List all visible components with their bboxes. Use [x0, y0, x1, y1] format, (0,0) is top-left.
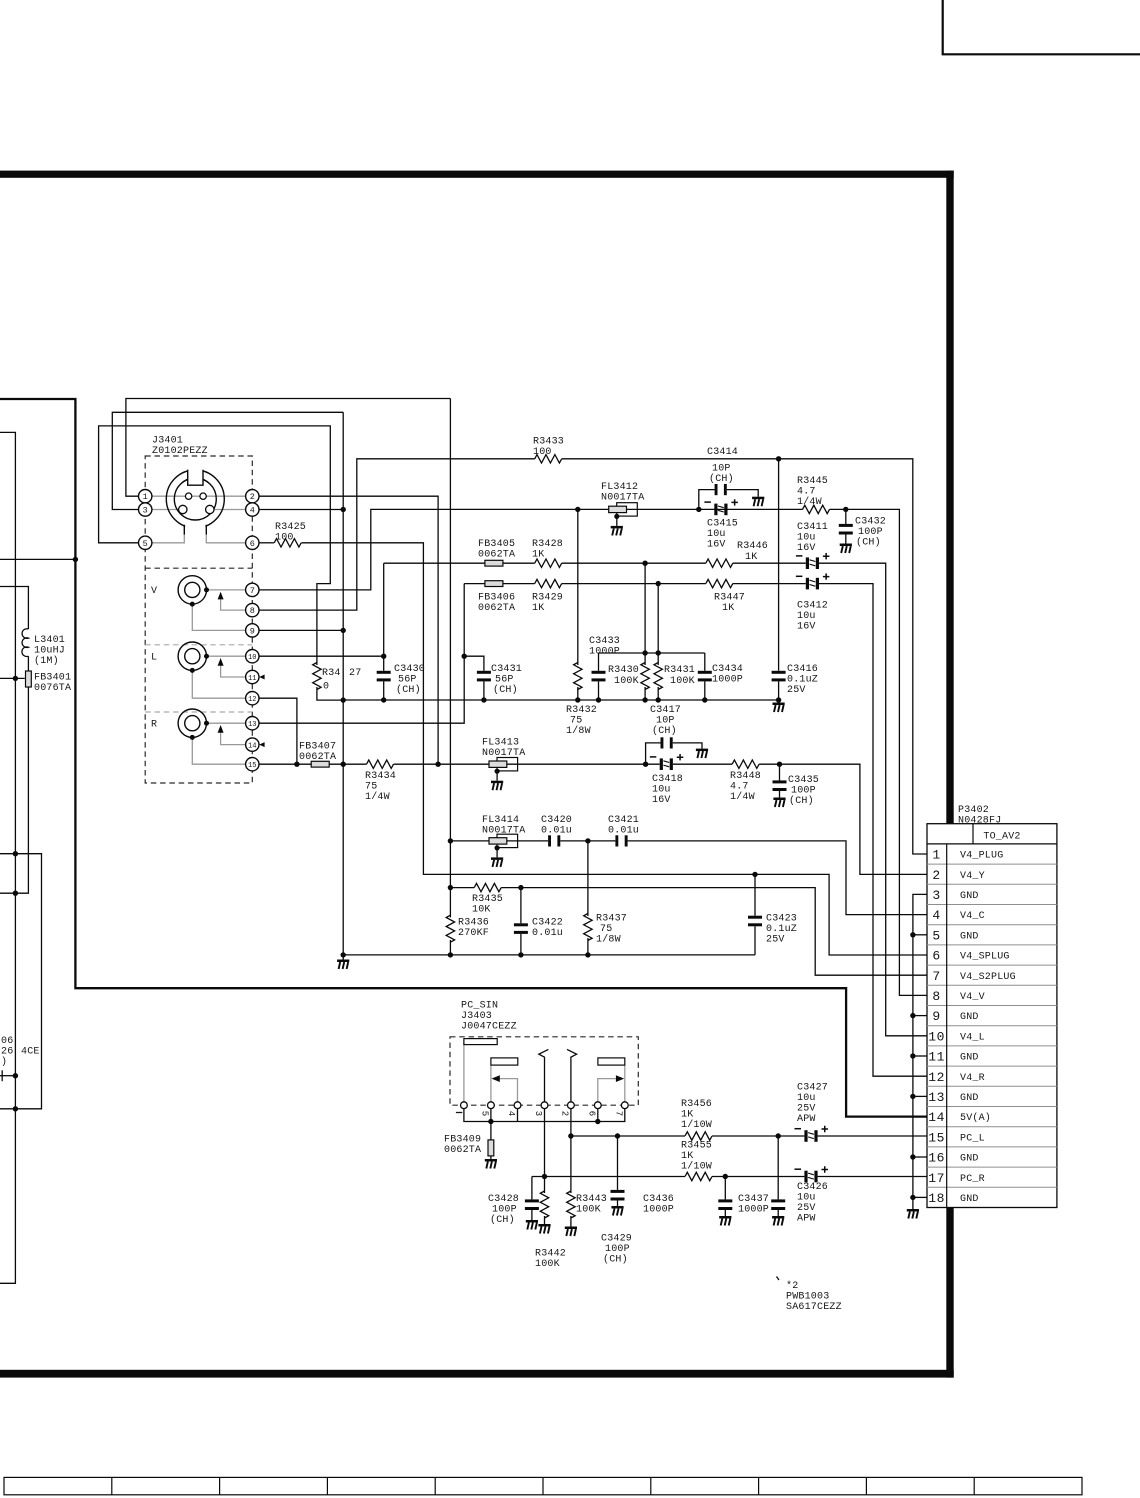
svg-text:FB3405: FB3405	[478, 539, 515, 550]
svg-text:6: 6	[932, 949, 940, 964]
svg-text:FL3413: FL3413	[482, 738, 519, 749]
svg-text:16V: 16V	[707, 540, 726, 551]
node junction V1/678	[13, 676, 18, 681]
wire S1 to R3435	[450, 887, 474, 889]
wire J3401 internal pin1-pin2 gray	[152, 495, 246, 497]
svg-text:17: 17	[928, 1171, 945, 1186]
svg-text:R3430: R3430	[608, 665, 639, 676]
wire stub left edge y1076	[0, 1075, 15, 1077]
resistor R3434	[367, 760, 394, 768]
svg-text:56P: 56P	[495, 675, 514, 686]
svg-text:1K: 1K	[745, 552, 757, 563]
node junction V1/1076	[13, 1073, 18, 1078]
wire R3445 to P3402 pin8 V4_V	[830, 509, 927, 995]
wire pin10 J3401 to audio-L vertical	[259, 655, 384, 657]
svg-text:PC_L: PC_L	[960, 1133, 985, 1144]
svg-text:(1M): (1M)	[34, 655, 59, 667]
wire P3402 pin9 GND stub	[913, 1015, 927, 1017]
wire pin6 J3401 to R3425	[259, 542, 274, 544]
svg-text:0.01u: 0.01u	[608, 826, 639, 837]
node junction C3435 tap	[777, 762, 782, 767]
pin 13 P3402 GND	[928, 1090, 978, 1105]
wire S1 below R3436 to ground rail	[449, 940, 451, 955]
capacitor C3432 to ground	[845, 509, 847, 524]
node junction C3420/C3421	[585, 838, 590, 843]
node junction C3414 tap	[696, 507, 701, 512]
wire C3420 to C3421	[560, 840, 615, 842]
svg-text:R3432: R3432	[566, 705, 597, 716]
J3403 internal switch arm pin6	[598, 1079, 616, 1102]
resistor R3448	[732, 760, 759, 768]
wire R3434 to FL3413	[394, 763, 490, 765]
node junction FB3409/bus	[488, 1119, 493, 1124]
pin 16 P3402 GND	[928, 1151, 978, 1166]
svg-text:GND: GND	[960, 1093, 979, 1104]
svg-text:2: 2	[932, 868, 940, 883]
svg-text:6: 6	[587, 1111, 597, 1116]
J3403 internal contact top bar	[463, 1041, 465, 1102]
capacitor C3433 with top link	[599, 652, 705, 654]
pin 18 P3402 GND	[928, 1191, 978, 1206]
resistor R3425	[274, 539, 301, 547]
svg-text:100K: 100K	[614, 676, 639, 687]
svg-text:APW: APW	[797, 1114, 816, 1125]
resistor R3446	[706, 559, 733, 567]
svg-text:(CH): (CH)	[603, 1254, 628, 1266]
pin 15 P3402 PC_L	[928, 1130, 985, 1145]
resistor R3437	[584, 914, 592, 941]
ferrite bead FB3405	[485, 560, 503, 566]
resistor R3427 value 0	[313, 663, 321, 690]
svg-text:R3443: R3443	[576, 1194, 607, 1205]
svg-text:10u: 10u	[797, 1093, 816, 1104]
ferrite bead FB3401	[26, 671, 32, 687]
wire P3402 pin5 GND stub	[913, 934, 927, 936]
svg-text:100: 100	[533, 447, 552, 458]
svg-text:100P: 100P	[605, 1244, 630, 1255]
ferrite bead FB3407	[311, 761, 329, 767]
resistor R3429	[535, 579, 562, 587]
svg-text:R3428: R3428	[532, 539, 563, 550]
svg-text:12: 12	[928, 1070, 945, 1085]
wire J3401 internal pin5 gray	[152, 535, 185, 543]
svg-text:C3417: C3417	[650, 705, 681, 716]
J3403 internal contact pin7 bar	[624, 1065, 626, 1102]
svg-text:C3433: C3433	[589, 636, 620, 647]
pin 8 P3402 V4_V	[932, 989, 984, 1004]
wire J3403 pin3 down to PC_R	[544, 1109, 546, 1177]
wire pin7 J3401 up to video line	[259, 509, 609, 590]
wire PC_L line from J3403 pin2 to P3402 pin15	[571, 1109, 685, 1136]
wire FB3407 to R3434	[329, 763, 366, 765]
node junction pin4/gndbus	[341, 507, 346, 512]
svg-text:*2: *2	[786, 1280, 798, 1292]
wire long vertical S1 down to R3436	[449, 399, 451, 918]
pin 4 P3402 V4_C	[932, 908, 984, 923]
svg-text:1000P: 1000P	[643, 1205, 674, 1216]
svg-text:PC_R: PC_R	[960, 1174, 985, 1185]
svg-text:3: 3	[533, 1111, 543, 1116]
electrolytic capacitor C3415	[704, 499, 738, 515]
pin 9 P3402 GND	[932, 1009, 978, 1024]
svg-text:0076TA: 0076TA	[34, 683, 71, 694]
node junction C3436 tap	[723, 1174, 728, 1179]
wire ground rail2 y955	[343, 954, 755, 956]
node junction C3422 tap	[518, 885, 523, 890]
svg-text:15: 15	[928, 1130, 945, 1145]
svg-text:FL3412: FL3412	[601, 482, 638, 493]
pin 12 P3402 V4_R	[928, 1070, 985, 1085]
svg-text:16: 16	[928, 1151, 945, 1166]
svg-text:R3442: R3442	[535, 1249, 566, 1260]
node junction C3422/rail2	[518, 952, 523, 957]
svg-text:1K: 1K	[722, 603, 734, 614]
svg-text:1/4W: 1/4W	[365, 791, 390, 803]
wire R3455 to C3426	[712, 1176, 804, 1178]
wire R3425 via x423 to V4_SPLUG line and P3402 pin6	[301, 543, 926, 955]
wire S1 to FL3414	[450, 840, 489, 842]
svg-text:100K: 100K	[535, 1259, 560, 1270]
svg-text:0.1uZ: 0.1uZ	[766, 924, 797, 935]
wire stub left edge to 5V line	[0, 558, 75, 560]
svg-text:25V: 25V	[797, 1203, 816, 1214]
node junction R3432 tap	[575, 507, 580, 512]
resistor R3430	[644, 563, 646, 665]
svg-text:7: 7	[614, 1111, 624, 1116]
svg-text:J3401: J3401	[152, 436, 183, 447]
resistor R3447	[706, 579, 733, 587]
node junction R3430/rail	[642, 697, 647, 702]
wire pin12 J3401 down to chroma/shield line	[259, 698, 297, 764]
pin 1 P3402 V4_PLUG	[932, 848, 1003, 863]
svg-text:(CH): (CH)	[652, 725, 677, 737]
resistor R3432 video terminator	[577, 509, 579, 665]
node junction C3416/rail	[776, 697, 781, 702]
svg-text:R3437: R3437	[596, 914, 627, 925]
RCA jack V J3401	[178, 576, 246, 631]
pin 6 P3402 V4_SPLUG	[932, 949, 1009, 964]
svg-text:R3448: R3448	[730, 771, 761, 782]
pin 3 P3402 GND	[932, 888, 978, 903]
pin 7 P3402 V4_S2PLUG	[932, 969, 1015, 984]
ground at rail right end	[778, 700, 780, 703]
electrolytic capacitor C3411	[796, 553, 830, 569]
connector J3403 pin circles	[461, 1102, 629, 1109]
svg-text:C3411: C3411	[797, 522, 828, 533]
wire pin1 J3401 via top bus to long vertical S1	[126, 399, 451, 497]
wire FB3406 to R3429	[503, 583, 535, 585]
pin 14 P3402 5V(A)	[928, 1110, 991, 1125]
svg-text:FB3407: FB3407	[299, 742, 336, 753]
svg-text:C3435: C3435	[788, 775, 819, 786]
ferrite bead FB3409	[490, 1122, 492, 1140]
wire C3420 junction down to R3437	[587, 841, 589, 916]
wire FL3412 to R3445	[627, 508, 803, 510]
svg-text:C3423: C3423	[766, 914, 797, 925]
wire J3401 internal pin4 gray	[214, 509, 246, 511]
svg-text:10u: 10u	[797, 611, 816, 622]
resistor R3435	[474, 883, 501, 891]
node junction 5V stub	[73, 557, 78, 562]
svg-text:V4_PLUG: V4_PLUG	[960, 851, 1003, 862]
svg-text:4CE: 4CE	[21, 1047, 40, 1058]
svg-text:C3428: C3428	[488, 1194, 519, 1205]
wire L3401 to FB3401	[27, 656, 29, 671]
capacitor C3414 bypass	[699, 490, 715, 510]
wire J3401 internal pin3 gray	[152, 509, 179, 511]
svg-text:L3401: L3401	[34, 635, 65, 646]
svg-text:0.1uZ: 0.1uZ	[787, 675, 818, 686]
node junction rail2 left end	[341, 952, 346, 957]
wire pin9 J3401 to ground bus	[259, 629, 344, 631]
node junction R3431 tap	[656, 581, 661, 586]
svg-text:10u: 10u	[797, 533, 816, 544]
wire P3402 pin11 GND stub	[913, 1055, 927, 1057]
svg-text:10u: 10u	[707, 529, 726, 540]
svg-text:10: 10	[928, 1029, 945, 1044]
node junction C3429 tap	[615, 1133, 620, 1138]
node junction FL3414 tap on S1	[448, 838, 453, 843]
svg-text:100: 100	[275, 533, 294, 544]
svg-text:1: 1	[932, 848, 940, 863]
svg-text:9: 9	[932, 1009, 940, 1024]
capacitor C3420	[548, 835, 560, 846]
svg-text:GND: GND	[960, 891, 979, 902]
svg-text:R3446: R3446	[737, 541, 768, 552]
node junction pin6 bus	[595, 1119, 600, 1124]
svg-text:C3418: C3418	[652, 774, 683, 785]
svg-text:PC_SIN: PC_SIN	[461, 1001, 498, 1012]
wire FB3401 down to edge wire y893	[0, 687, 28, 893]
svg-text:V4_S2PLUG: V4_S2PLUG	[960, 972, 1016, 983]
svg-text:N0017TA: N0017TA	[482, 826, 525, 837]
node junction C3431/rail	[481, 697, 486, 702]
svg-text:1/10W: 1/10W	[681, 1119, 712, 1131]
wire pin2 J3401 down to chroma line	[259, 496, 438, 764]
svg-text:10u: 10u	[652, 785, 671, 796]
svg-text:10K: 10K	[472, 905, 491, 916]
svg-text:4: 4	[506, 1111, 516, 1116]
svg-text:V4_Y: V4_Y	[960, 871, 985, 882]
wire ground rail y700	[343, 699, 778, 701]
wire pin4 J3401 to ground bus	[259, 509, 344, 511]
wire P3402 pin18 GND stub	[913, 1196, 927, 1198]
svg-text:C3431: C3431	[491, 664, 522, 675]
filter FL3412	[609, 503, 638, 536]
capacitor C3437 to ground	[777, 1136, 779, 1199]
svg-text:18: 18	[928, 1191, 945, 1206]
svg-text:C3429: C3429	[601, 1234, 632, 1245]
svg-text:06: 06	[1, 1036, 13, 1047]
inductor L3401	[22, 629, 28, 657]
border frame bottom edge	[0, 1370, 954, 1378]
svg-text:C3432: C3432	[855, 517, 886, 528]
svg-text:26: 26	[1, 1047, 13, 1058]
svg-text:C3426: C3426	[797, 1182, 828, 1193]
node junction C3433 link/R3430	[642, 650, 647, 655]
wire FL3414 to C3420	[507, 840, 548, 842]
svg-text:2: 2	[560, 1111, 570, 1116]
svg-text:16V: 16V	[797, 543, 816, 554]
svg-text:GND: GND	[960, 1053, 979, 1064]
svg-text:15: 15	[248, 762, 256, 770]
capacitor C3423 on V4_SPLUG line	[754, 874, 756, 915]
svg-text:GND: GND	[960, 1154, 979, 1165]
svg-text:R3436: R3436	[458, 918, 489, 929]
J3403 internal switch arm pin4	[500, 1079, 518, 1102]
svg-text:C3437: C3437	[738, 1194, 769, 1205]
wire FB3405 to R3428	[503, 562, 535, 564]
svg-text:APW: APW	[797, 1214, 816, 1225]
svg-text:R3433: R3433	[533, 437, 564, 448]
svg-text:0062TA: 0062TA	[444, 1145, 481, 1156]
capacitor C3422	[520, 888, 522, 924]
svg-text:1K: 1K	[532, 603, 544, 614]
svg-text:0: 0	[323, 682, 329, 693]
svg-text:GND: GND	[960, 1194, 979, 1205]
svg-text:1000P: 1000P	[589, 647, 620, 658]
svg-text:SA617CEZZ: SA617CEZZ	[786, 1302, 842, 1313]
S-video DIN socket J3401 body	[166, 467, 224, 534]
node junction R3432/rail	[575, 697, 580, 702]
capacitor C3429 to ground	[617, 1136, 619, 1190]
wire pin15 J3401 to FB3407	[259, 763, 312, 765]
wire FL3413 to C3418	[507, 763, 660, 765]
svg-text:16V: 16V	[797, 622, 816, 633]
wire L3401 branch from left edge	[0, 587, 28, 630]
svg-text:5: 5	[932, 928, 940, 943]
resistor R3455	[685, 1172, 712, 1180]
svg-text:4: 4	[250, 506, 255, 516]
pin 14 stub arrow	[259, 742, 264, 747]
wire C3421 to P3402 pin4 V4_C	[628, 841, 927, 915]
svg-text:100P: 100P	[791, 786, 816, 797]
svg-text:R3429: R3429	[532, 593, 563, 604]
svg-text:J3403: J3403	[461, 1011, 492, 1022]
svg-text:2: 2	[250, 492, 255, 502]
svg-text:0062TA: 0062TA	[478, 603, 515, 614]
note PWB1003	[777, 1277, 780, 1281]
svg-text:V4_R: V4_R	[960, 1073, 985, 1084]
svg-text:3: 3	[143, 506, 148, 516]
node junction R3431/rail	[656, 697, 661, 702]
node junction R3430 tap	[642, 561, 647, 566]
node junction C3432 tap	[843, 507, 848, 512]
svg-text:1000P: 1000P	[738, 1205, 769, 1216]
filter FL3413	[489, 758, 518, 791]
svg-text:C3430: C3430	[394, 664, 425, 675]
wire ground bus x343 down to rail2	[342, 412, 344, 955]
resistor R3433	[535, 455, 562, 463]
svg-text:56P: 56P	[398, 675, 417, 686]
wire R3433 to P3402 pin1 V4_PLUG	[562, 459, 927, 854]
capacitor C3430 to rail	[377, 671, 391, 682]
RCA jack R J3401	[178, 709, 246, 764]
svg-text:V: V	[151, 586, 157, 597]
svg-text:C3420: C3420	[541, 815, 572, 826]
svg-text:0.01u: 0.01u	[532, 928, 563, 939]
svg-text:1/10W: 1/10W	[681, 1161, 712, 1173]
svg-text:PWB1003: PWB1003	[786, 1292, 829, 1303]
node junction C3417 tap	[643, 762, 648, 767]
svg-text:10u: 10u	[797, 1193, 816, 1204]
svg-text:0.01u: 0.01u	[541, 826, 572, 837]
wire R3427 bottom to ground rail	[317, 687, 343, 700]
svg-text:10P: 10P	[712, 464, 731, 475]
svg-text:1/8W: 1/8W	[566, 725, 591, 737]
svg-text:1K: 1K	[681, 1110, 693, 1121]
svg-text:R34: R34	[322, 668, 341, 679]
svg-text:C3436: C3436	[643, 1194, 674, 1205]
svg-text:7: 7	[250, 586, 255, 596]
node junction rail/gndbus	[341, 697, 346, 702]
ground at P3402 bus	[907, 1209, 919, 1219]
svg-text:10: 10	[248, 654, 256, 662]
node junction pin2bus/chroma	[435, 762, 440, 767]
svg-text:11: 11	[928, 1050, 945, 1065]
svg-text:C3421: C3421	[608, 815, 639, 826]
svg-text:L: L	[151, 653, 157, 664]
wire pin3 J3401 to ground bus x343	[112, 412, 343, 509]
node junction C3433 link/R3431	[656, 650, 661, 655]
capacitor C3417 bypass	[646, 743, 661, 764]
svg-text:(CH): (CH)	[396, 684, 421, 696]
svg-text:25V: 25V	[797, 1104, 816, 1115]
svg-text:1K: 1K	[532, 550, 544, 561]
svg-text:100K: 100K	[670, 676, 695, 687]
svg-text:TO_AV2: TO_AV2	[983, 831, 1020, 842]
wire left edge y854 to 4CE box vertical	[0, 854, 42, 1109]
node junction R3437/rail2	[585, 952, 590, 957]
svg-text:1K: 1K	[681, 1151, 693, 1162]
svg-text:3: 3	[932, 888, 940, 903]
J3403 pin labels rotated	[456, 1111, 624, 1116]
svg-text:FL3414: FL3414	[482, 815, 519, 826]
RCA jack L J3401	[178, 642, 246, 698]
svg-text:GND: GND	[960, 1012, 979, 1023]
ferrite bead FB3406	[485, 581, 503, 587]
svg-text:C3416: C3416	[787, 664, 818, 675]
svg-text:4.7: 4.7	[730, 782, 749, 793]
node junction pin10/audioL	[381, 654, 386, 659]
pin 17 P3402 PC_R	[928, 1171, 985, 1186]
svg-text:1/4W: 1/4W	[797, 496, 822, 508]
resistor R3431	[657, 584, 659, 665]
node junction V1/854	[13, 851, 18, 856]
svg-text:(CH): (CH)	[789, 795, 814, 807]
wire audio-L vertical x383	[383, 563, 385, 671]
svg-text:FB3409: FB3409	[444, 1135, 481, 1146]
svg-text:GND: GND	[960, 931, 979, 942]
svg-text:R3425: R3425	[275, 522, 306, 533]
svg-text:14: 14	[248, 743, 256, 751]
svg-text:(CH): (CH)	[493, 684, 518, 696]
capacitor C3435 to ground	[779, 764, 781, 780]
revision table bottom	[4, 1477, 1082, 1494]
pin 5 P3402 GND	[932, 928, 978, 943]
svg-text:12: 12	[248, 696, 256, 704]
wire C3426 to P3402 pin17 PC_R	[818, 1176, 927, 1178]
svg-text:75: 75	[365, 782, 377, 793]
svg-text:R3435: R3435	[472, 894, 503, 905]
border frame top edge	[0, 171, 954, 178]
wire R3435 to P3402 pin7 V4_S2PLUG	[501, 888, 926, 976]
svg-text:1/8W: 1/8W	[596, 934, 621, 946]
wire C3411 to P3402 pin10 V4_L	[819, 563, 927, 1036]
wire C3418 to R3448	[673, 763, 732, 765]
J3403 internal contact pin5 bar	[490, 1065, 492, 1102]
svg-text:R: R	[151, 720, 157, 731]
